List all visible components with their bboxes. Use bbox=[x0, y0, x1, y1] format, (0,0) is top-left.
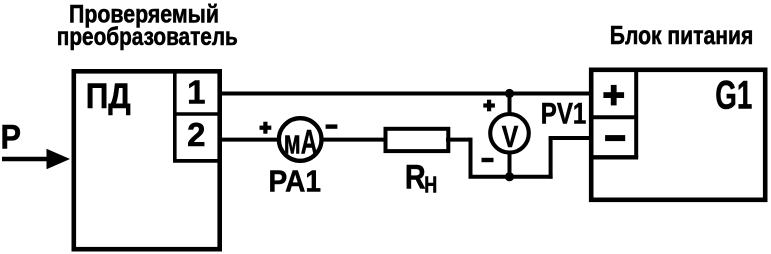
wire: PA1 to resistor RH bbox=[321, 138, 387, 142]
svg-text:Блок питания: Блок питания bbox=[610, 20, 754, 50]
svg-text:PV1: PV1 bbox=[541, 97, 587, 130]
pin 1 label bbox=[187, 74, 205, 111]
power supply box G1 bbox=[591, 70, 765, 200]
plus label at PA1 bbox=[260, 122, 272, 134]
resistor RH bbox=[386, 129, 449, 151]
svg-text:G1: G1 bbox=[715, 74, 752, 118]
svg-text:Р: Р bbox=[1, 119, 22, 157]
label RH bbox=[405, 159, 437, 198]
wire: terminal 1 to G1 plus (top rail) bbox=[220, 92, 591, 96]
input arrow P bbox=[2, 149, 70, 169]
label G1 bbox=[715, 74, 752, 118]
wire: bottom rail bbox=[469, 175, 553, 179]
wire: PV1 vertical leads bbox=[508, 94, 512, 177]
plus terminal label of G1 bbox=[603, 85, 624, 106]
label: power supply title bbox=[610, 20, 754, 50]
wire: RH to bottom rail corner bbox=[446, 138, 471, 177]
junction node: top rail / PV1 bbox=[505, 89, 514, 98]
svg-text:мА: мА bbox=[284, 124, 318, 162]
svg-text:1: 1 bbox=[187, 74, 205, 111]
label PA1 bbox=[269, 164, 322, 199]
node P label bbox=[1, 119, 22, 157]
svg-text:PA1: PA1 bbox=[269, 164, 322, 199]
transducer box ПД bbox=[74, 71, 220, 249]
label: checked transducer title bbox=[57, 0, 238, 51]
svg-text:2: 2 bbox=[187, 116, 205, 153]
minus label at PA1 bbox=[326, 124, 338, 128]
terminal column of ПД bbox=[173, 71, 219, 161]
minus label at PV1 bbox=[482, 158, 494, 162]
svg-text:V: V bbox=[502, 119, 519, 154]
plus label at PV1 bbox=[483, 100, 495, 112]
label PV1 bbox=[541, 97, 587, 130]
ammeter PA1 bbox=[279, 118, 322, 162]
wire: terminal 2 to PA1 bbox=[220, 138, 280, 142]
terminal column of G1 bbox=[593, 70, 638, 158]
svg-text:ПД: ПД bbox=[86, 77, 131, 116]
pin 2 label bbox=[187, 116, 205, 153]
svg-text:преобразователь: преобразователь bbox=[57, 23, 238, 51]
voltmeter PV1 bbox=[490, 114, 529, 154]
minus terminal label of G1 bbox=[605, 135, 625, 141]
wire: bottom rail up to G1 minus bbox=[549, 138, 592, 179]
junction node: bottom rail / PV1 bbox=[505, 172, 514, 181]
svg-text:Н: Н bbox=[424, 171, 437, 197]
label ПД bbox=[86, 77, 131, 116]
svg-text:R: R bbox=[405, 159, 426, 197]
